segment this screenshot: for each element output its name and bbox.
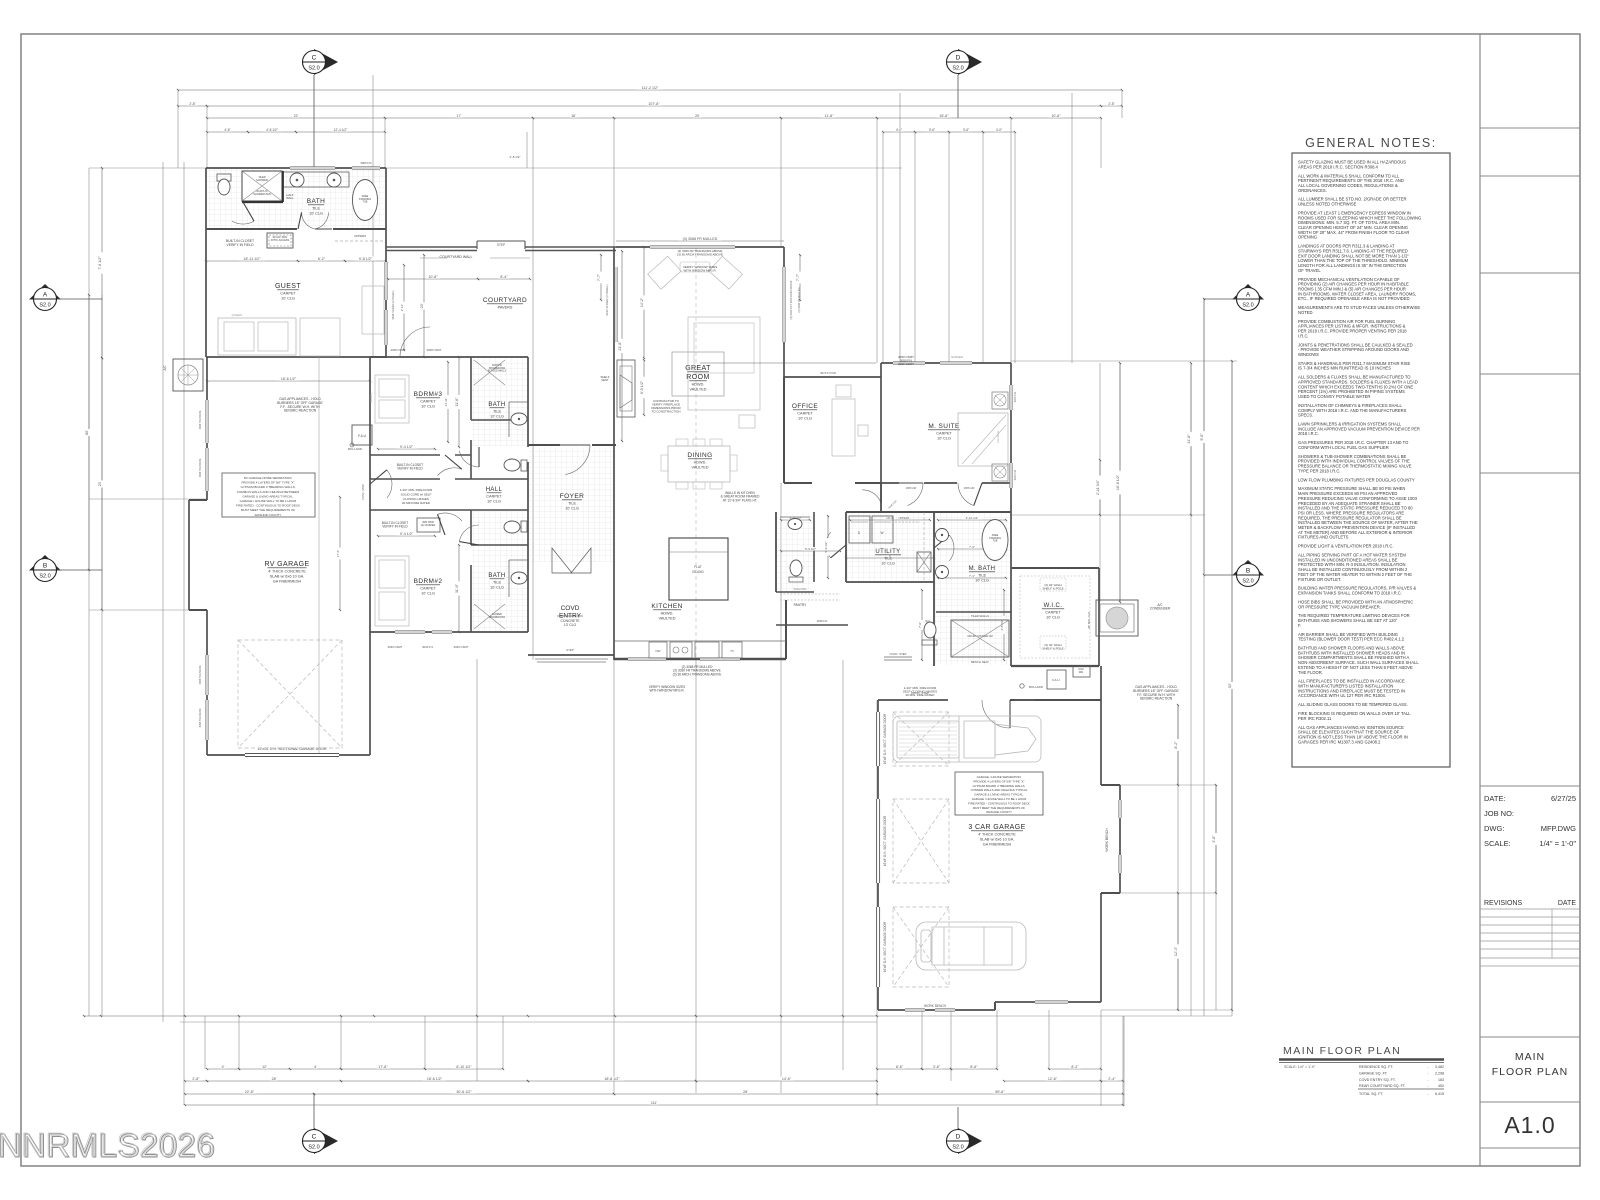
svg-text:A/C: A/C xyxy=(163,365,167,371)
svg-text:(2) NOZZES: (2) NOZZES xyxy=(421,523,436,527)
svg-text:14'-11": 14'-11" xyxy=(444,397,448,406)
svg-text:107'-8": 107'-8" xyxy=(648,102,660,106)
svg-text:S2.0: S2.0 xyxy=(308,1145,319,1151)
svg-text:SLAB w/ 6x6 10 GA.: SLAB w/ 6x6 10 GA. xyxy=(980,838,1015,842)
svg-text:WITH WINDOW MFG.R.: WITH WINDOW MFG.R. xyxy=(684,268,717,272)
svg-text:DINING: DINING xyxy=(687,452,712,459)
svg-text:(3) 36 ARCH TRANSOMS ABOVE: (3) 36 ARCH TRANSOMS ABOVE xyxy=(677,252,723,256)
svg-text:WITH WINDOW MFG.R.: WITH WINDOW MFG.R. xyxy=(649,689,684,693)
svg-text:CARPET: CARPET xyxy=(1045,611,1061,615)
svg-text:IN TILED WALLS: IN TILED WALLS xyxy=(488,370,507,373)
svg-text:HDWD.: HDWD. xyxy=(692,383,705,387)
svg-text:2'-8": 2'-8" xyxy=(1108,102,1114,106)
svg-text:DWG:: DWG: xyxy=(1484,824,1504,833)
svg-text:18'-11 1/2": 18'-11 1/2" xyxy=(244,257,262,261)
svg-text:18'-8 1/2": 18'-8 1/2" xyxy=(604,1077,620,1081)
svg-text:11'-6": 11'-6" xyxy=(455,397,459,407)
svg-text:BDRM#2: BDRM#2 xyxy=(414,578,443,585)
svg-text:THE FLOOR.: THE FLOOR. xyxy=(1298,670,1323,675)
svg-text:8'-10 1/2": 8'-10 1/2" xyxy=(456,1065,472,1069)
svg-text:PER 2018 I.R.C. PROVIDE PROPER: PER 2018 I.R.C. PROVIDE PROPER VENTING P… xyxy=(1298,329,1407,334)
svg-text:14'-8": 14'-8" xyxy=(1187,434,1191,444)
svg-text:7'-1": 7'-1" xyxy=(969,574,975,578)
svg-text:SHELF & POLE: SHELF & POLE xyxy=(1042,586,1063,590)
svg-text:MAIN FLOOR PLAN: MAIN FLOOR PLAN xyxy=(1283,1045,1401,1057)
svg-text:2'-11 3/4": 2'-11 3/4" xyxy=(1096,479,1100,495)
svg-text:10' CLG: 10' CLG xyxy=(421,592,435,596)
svg-text:3,482: 3,482 xyxy=(1435,1065,1444,1069)
svg-text:2'-8": 2'-8" xyxy=(192,1077,200,1081)
svg-text:6,415: 6,415 xyxy=(1435,1092,1444,1096)
svg-text:3068 TRANSOM: 3068 TRANSOM xyxy=(199,666,202,685)
svg-text:2'-8": 2'-8" xyxy=(189,102,195,106)
svg-text:3050 FIX: 3050 FIX xyxy=(1013,469,1017,480)
svg-text:3050 FIX: 3050 FIX xyxy=(1013,391,1017,402)
svg-text:3'-8": 3'-8" xyxy=(1212,835,1216,843)
svg-text:6/27/25: 6/27/25 xyxy=(1551,794,1576,803)
svg-text:ALL SLIDING GLASS DOORS TO BE: ALL SLIDING GLASS DOORS TO BE TEMPERED G… xyxy=(1298,702,1408,707)
svg-text:GUEST: GUEST xyxy=(275,283,301,290)
svg-text:20 MIN.FIRE RATED: 20 MIN.FIRE RATED xyxy=(402,501,431,505)
svg-text:22': 22' xyxy=(294,114,299,118)
svg-text:KITCHEN: KITCHEN xyxy=(651,603,682,610)
svg-text:UTILITY: UTILITY xyxy=(875,549,900,555)
svg-text:S2.0: S2.0 xyxy=(39,303,50,309)
svg-text:NNRMLS2026: NNRMLS2026 xyxy=(0,1126,215,1163)
svg-text:18'-6": 18'-6" xyxy=(939,114,949,118)
svg-text:TILE: TILE xyxy=(493,581,501,585)
svg-text:8'-6": 8'-6" xyxy=(970,1065,978,1069)
svg-text:D: D xyxy=(956,1134,961,1141)
svg-text:CARPET: CARPET xyxy=(797,412,813,416)
svg-text:2'-11": 2'-11" xyxy=(400,304,404,311)
svg-text:F.A.U: F.A.U xyxy=(1052,678,1059,682)
svg-text:16'x8' O.H. SECT. GARAGE DOOR: 16'x8' O.H. SECT. GARAGE DOOR xyxy=(883,921,887,972)
svg-text:TILE: TILE xyxy=(884,557,892,561)
svg-text:PER IRC R302.11: PER IRC R302.11 xyxy=(1298,716,1332,721)
svg-text:10' CLG: 10' CLG xyxy=(881,562,895,566)
svg-text:BENCH SEAT: BENCH SEAT xyxy=(971,660,989,664)
svg-text:SEISMIC REACTION: SEISMIC REACTION xyxy=(284,409,317,413)
svg-text:2868 AIR: 2868 AIR xyxy=(906,486,917,490)
svg-text:RV GARAGE NOISE SEPARATION:: RV GARAGE NOISE SEPARATION: xyxy=(244,476,293,480)
svg-text:D: D xyxy=(956,55,961,62)
svg-text:20': 20' xyxy=(695,114,700,118)
svg-text:3068 TRANSOM: 3068 TRANSOM xyxy=(199,411,202,430)
svg-text:MUST MEET THE REQUIREMENTS OF: MUST MEET THE REQUIREMENTS OF xyxy=(973,806,1026,810)
svg-text:111': 111' xyxy=(651,1101,657,1105)
svg-text:HDWD.: HDWD. xyxy=(694,461,707,465)
svg-text:9'-4 1/2": 9'-4 1/2" xyxy=(400,532,414,536)
svg-text:GARAGE SQ. FT.: GARAGE SQ. FT. xyxy=(1359,1071,1388,1075)
svg-text:COVD: COVD xyxy=(561,605,580,612)
svg-text:GENERAL NOTES:: GENERAL NOTES: xyxy=(1305,136,1437,150)
svg-text:SHOWER PAN: SHOWER PAN xyxy=(489,616,505,619)
svg-text:14'-6": 14'-6" xyxy=(782,1077,792,1081)
svg-text:TUB: TUB xyxy=(993,540,998,543)
svg-text:C: C xyxy=(312,55,317,62)
svg-text:CONC. STEP: CONC. STEP xyxy=(361,484,365,500)
svg-text:4'-8 1/2": 4'-8 1/2" xyxy=(266,128,278,132)
svg-text:COMPLY WITH 2018 I.R.C. AND TH: COMPLY WITH 2018 I.R.C. AND THE MANUFACT… xyxy=(1298,408,1407,413)
svg-text:12'-4": 12'-4" xyxy=(1174,946,1178,956)
svg-text:LOW FLOW PLUMBING FIXTURES PER: LOW FLOW PLUMBING FIXTURES PER DOUGLAS C… xyxy=(1298,477,1415,482)
svg-text:FLAT: FLAT xyxy=(694,565,702,569)
svg-text:7'-6 1/2": 7'-6 1/2" xyxy=(98,256,102,270)
svg-text:3068 TRANSOM: 3068 TRANSOM xyxy=(199,459,202,478)
svg-text:EXPANSION TANKS SHALL CONFORM: EXPANSION TANKS SHALL CONFORM TO 2018 I.… xyxy=(1298,591,1402,596)
svg-text:W.C.: W.C. xyxy=(925,619,931,623)
svg-text:13' CLG: 13' CLG xyxy=(564,623,577,627)
svg-text:SLAB w/ 6x6 10 GA.: SLAB w/ 6x6 10 GA. xyxy=(270,575,305,579)
svg-text:S2.0: S2.0 xyxy=(952,1145,963,1151)
svg-text:GARAGE & LIVING AREAS TYPICAL.: GARAGE & LIVING AREAS TYPICAL. xyxy=(242,494,293,498)
svg-text:8'-2": 8'-2" xyxy=(1071,1065,1079,1069)
svg-text:STEP: STEP xyxy=(566,648,574,652)
svg-text:IS 7-3/4 INCHES MIN RUN/TREAD: IS 7-3/4 INCHES MIN RUN/TREAD IS 10 INCH… xyxy=(1298,366,1391,371)
svg-text:QUEEN: QUEEN xyxy=(232,313,243,317)
svg-text:COMMON WALLS AND CEILINGS BETW: COMMON WALLS AND CEILINGS BETWEEN xyxy=(237,490,299,494)
svg-text:452: 452 xyxy=(1438,1084,1444,1088)
svg-text:GA FIBERMESH: GA FIBERMESH xyxy=(983,843,1012,847)
svg-text:10' CLG: 10' CLG xyxy=(975,579,989,583)
svg-text:10' CLG: 10' CLG xyxy=(487,500,501,504)
svg-text:2'-4": 2'-4" xyxy=(1108,1077,1116,1081)
svg-text:TYPE PER 2018 I.R.C.: TYPE PER 2018 I.R.C. xyxy=(1298,468,1341,473)
svg-text:3068 TRANSOM: 3068 TRANSOM xyxy=(199,709,202,728)
svg-text:2018 I.R.C.: 2018 I.R.C. xyxy=(1298,431,1319,436)
svg-text:BOLLARD: BOLLARD xyxy=(348,447,363,451)
svg-text:BATHTUBS AND SHOWERS SHALL BE: BATHTUBS AND SHOWERS SHALL BE SET AT 120… xyxy=(1298,618,1398,623)
svg-text:UPPERS: UPPERS xyxy=(899,516,910,520)
svg-text:3070 F FIXD: 3070 F FIXD xyxy=(820,371,836,375)
svg-text:SHOWER PAN: SHOWER PAN xyxy=(253,192,271,196)
svg-text:17'-8": 17'-8" xyxy=(378,1065,388,1069)
svg-text:REVISIONS: REVISIONS xyxy=(1484,900,1522,907)
svg-text:COURTYARD WALL: COURTYARD WALL xyxy=(439,255,472,259)
svg-text:GREAT: GREAT xyxy=(685,365,711,372)
svg-text:28': 28' xyxy=(272,1077,277,1081)
svg-text:SEISMIC REACTION: SEISMIC REACTION xyxy=(1140,697,1173,701)
svg-text:48" MIN. CLR.: 48" MIN. CLR. xyxy=(1087,611,1091,629)
svg-text:PAVERS: PAVERS xyxy=(498,306,513,310)
svg-text:M. BATH: M. BATH xyxy=(969,566,996,572)
svg-text:10' CLG: 10' CLG xyxy=(1046,616,1060,620)
svg-text:2848 F.R: 2848 F.R xyxy=(817,619,828,623)
svg-text:CONNER WALLS AND CEILINGS TYPI: CONNER WALLS AND CEILINGS TYPICAL xyxy=(971,788,1028,792)
svg-text:SOLID CORE w/ SELF: SOLID CORE w/ SELF xyxy=(401,492,432,496)
svg-text:W.I.C.: W.I.C. xyxy=(1044,603,1063,609)
svg-text:PROVIDE 4 LAYERS OF 5/8" TYPE: PROVIDE 4 LAYERS OF 5/8" TYPE "X" xyxy=(241,481,294,485)
svg-text:DATE: DATE xyxy=(1558,900,1576,907)
svg-text:SHELVING: SHELVING xyxy=(794,587,807,591)
svg-text:CARPET: CARPET xyxy=(420,587,436,591)
svg-text:WASHOE COUNTY: WASHOE COUNTY xyxy=(255,513,282,517)
svg-text:SCALE: 1/4" = 1'-0": SCALE: 1/4" = 1'-0" xyxy=(1284,1065,1316,1069)
svg-text:4'-6": 4'-6" xyxy=(224,128,230,132)
svg-text:3'-6": 3'-6" xyxy=(963,128,969,132)
svg-text:GARAGE / HOUSE WALL TO BE 1 HO: GARAGE / HOUSE WALL TO BE 1 HOUR xyxy=(972,797,1027,801)
svg-text:9'-8": 9'-8" xyxy=(1200,433,1204,441)
svg-text:7'-4": 7'-4" xyxy=(969,545,975,549)
svg-text:3050 CSMT: 3050 CSMT xyxy=(898,362,914,366)
svg-text:4' THICK CONCRETE: 4' THICK CONCRETE xyxy=(268,570,306,574)
svg-text:FIRE RATED - CONTINUOUS TO ROO: FIRE RATED - CONTINUOUS TO ROOF DECK xyxy=(968,801,1030,805)
svg-text:52': 52' xyxy=(1228,683,1232,688)
svg-text:9'-4 1/2": 9'-4 1/2" xyxy=(400,445,414,449)
svg-text:GARAGE & LIVING AREAS TYPICAL.: GARAGE & LIVING AREAS TYPICAL. xyxy=(974,793,1024,797)
svg-text:SUNKEN: SUNKEN xyxy=(951,355,963,359)
svg-text:1-3/4" MIN. FIRE DOOR: 1-3/4" MIN. FIRE DOOR xyxy=(400,488,433,492)
svg-text:GARAGES PER IRC M1307.3 AND G2: GARAGES PER IRC M1307.3 AND G2408.2 xyxy=(1298,739,1381,744)
svg-text:FIXTURE OR OUTLET.: FIXTURE OR OUTLET. xyxy=(1298,577,1341,582)
svg-text:C: C xyxy=(312,1134,317,1141)
svg-text:WASHOE COUNTY: WASHOE COUNTY xyxy=(986,810,1012,814)
svg-text:OF TRAVEL: OF TRAVEL xyxy=(1298,268,1321,273)
svg-text:S2.0: S2.0 xyxy=(952,66,963,72)
svg-text:NOTED: NOTED xyxy=(1298,310,1313,315)
svg-text:BATH: BATH xyxy=(488,573,505,579)
svg-text:10' CLG: 10' CLG xyxy=(490,586,504,590)
svg-text:CARPET: CARPET xyxy=(936,432,952,436)
svg-text:4' THICK CONCRETE: 4' THICK CONCRETE xyxy=(978,833,1016,837)
svg-text:TESTING (BLOWER DOOR TEST) PER: TESTING (BLOWER DOOR TEST) PER ECC R402.… xyxy=(1298,637,1405,642)
svg-text:RV GARAGE: RV GARAGE xyxy=(264,561,309,568)
svg-text:BDRM#3: BDRM#3 xyxy=(414,391,443,398)
svg-text:10' CLG: 10' CLG xyxy=(421,405,435,409)
svg-text:SHOWER: SHOWER xyxy=(256,178,268,182)
svg-text:A: A xyxy=(1246,292,1251,299)
svg-text:A: A xyxy=(43,292,48,299)
svg-text:AT 12'-8 3/4" PLATE HT.: AT 12'-8 3/4" PLATE HT. xyxy=(723,498,758,502)
svg-text:WINDOWS: WINDOWS xyxy=(1298,352,1319,357)
svg-text:4'-0": 4'-0" xyxy=(896,128,902,132)
svg-text:ACCORDANCE WITH UL 127 PER IRC: ACCORDANCE WITH UL 127 PER IRC R1004. xyxy=(1298,693,1386,698)
svg-text:VAULTED: VAULTED xyxy=(659,617,676,621)
svg-text:UNLESS NOTED OTHERWISE: UNLESS NOTED OTHERWISE xyxy=(1298,202,1357,207)
svg-text:TILE: TILE xyxy=(312,207,320,211)
svg-text:10' CLG: 10' CLG xyxy=(798,417,812,421)
svg-text:DW: DW xyxy=(656,649,661,653)
svg-text:ISLAND: ISLAND xyxy=(692,570,704,574)
svg-text:S2.0: S2.0 xyxy=(1242,579,1253,585)
svg-text:ATTIC ACCESS: ATTIC ACCESS xyxy=(271,238,290,242)
svg-text:3030 F.X.: 3030 F.X. xyxy=(422,645,434,649)
svg-text:9'-8 1/2": 9'-8 1/2" xyxy=(359,257,373,261)
svg-text:3'-6": 3'-6" xyxy=(933,1065,941,1069)
svg-text:22'-8": 22'-8" xyxy=(245,1090,255,1094)
svg-text:4': 4' xyxy=(314,1065,317,1069)
svg-text:3068 CSMT: 3068 CSMT xyxy=(427,348,442,352)
svg-text:FIXTURES AND OUTLETS: FIXTURES AND OUTLETS xyxy=(1298,535,1349,540)
svg-text:AIR/JET SHOWER AM: AIR/JET SHOWER AM xyxy=(967,635,993,638)
svg-text:TILE: TILE xyxy=(978,574,986,578)
svg-text:89'-6": 89'-6" xyxy=(995,1090,1005,1094)
svg-text:USED TO CONVEY POTABLE WATER: USED TO CONVEY POTABLE WATER xyxy=(1298,394,1370,399)
svg-text:FOYER: FOYER xyxy=(560,493,584,500)
svg-text:STEP: STEP xyxy=(497,243,505,247)
svg-text:(3) 3030 FR TRANSOMS ABOVE: (3) 3030 FR TRANSOMS ABOVE xyxy=(789,280,793,319)
svg-text:16': 16' xyxy=(571,114,576,118)
svg-text:B: B xyxy=(1246,568,1250,575)
svg-text:10'-6": 10'-6" xyxy=(1051,114,1061,118)
svg-text:HALL: HALL xyxy=(486,487,503,493)
svg-text:7'-9": 7'-9" xyxy=(918,622,922,628)
svg-text:OR PRESSURE TYPE VACUUM BREAKE: OR PRESSURE TYPE VACUUM BREAKER. xyxy=(1298,604,1381,609)
svg-text:ETC., IF REQUIRED OPENABLE ARE: ETC., IF REQUIRED OPENABLE AREA IS NOT P… xyxy=(1298,296,1410,301)
svg-text:HDWD.: HDWD. xyxy=(661,612,674,616)
svg-text:CAL KING: CAL KING xyxy=(996,431,1000,443)
svg-text:MEASUREMENTS ARE TO STUD FACES: MEASUREMENTS ARE TO STUD FACES UNLESS OT… xyxy=(1298,305,1420,310)
svg-text:16'-8 1/2": 16'-8 1/2" xyxy=(1116,474,1120,490)
svg-text:SPECS.: SPECS. xyxy=(1298,413,1313,418)
svg-text:(3) 36 ARCH TRANSOMS ABOVE: (3) 36 ARCH TRANSOMS ABOVE xyxy=(673,672,722,676)
svg-text:CARPET: CARPET xyxy=(486,495,502,499)
svg-text:CONFORM WITH LOCAL FUEL GAS SU: CONFORM WITH LOCAL FUEL GAS SUPPLIER xyxy=(1298,445,1389,450)
svg-text:OPENING: OPENING xyxy=(1298,235,1317,240)
svg-text:FIRE RATED - CONTINUOUS TO ROO: FIRE RATED - CONTINUOUS TO ROOF DECK xyxy=(236,504,300,508)
svg-text:23': 23' xyxy=(98,481,102,486)
svg-text:BOLLARD: BOLLARD xyxy=(1029,685,1044,689)
svg-text:CONC. STEP: CONC. STEP xyxy=(889,652,906,656)
svg-text:TUB: TUB xyxy=(363,201,368,204)
svg-text:OFFICE: OFFICE xyxy=(792,403,818,410)
svg-text:17': 17' xyxy=(457,114,462,118)
svg-text:CARPET: CARPET xyxy=(280,292,296,296)
svg-text:WALL: WALL xyxy=(286,196,294,200)
svg-text:9636 SLIDER (2 PANEL): 9636 SLIDER (2 PANEL) xyxy=(391,290,395,319)
svg-text:GA FIBERMESH: GA FIBERMESH xyxy=(273,580,302,584)
svg-text:12'-6": 12'-6" xyxy=(1048,1077,1058,1081)
svg-text:14'-2": 14'-2" xyxy=(640,297,644,307)
svg-text:TILED WALLS: TILED WALLS xyxy=(971,614,989,618)
svg-text:11'-8": 11'-8" xyxy=(825,114,835,118)
svg-text:11'-6": 11'-6" xyxy=(455,583,459,593)
svg-text:21'-8": 21'-8" xyxy=(618,341,622,351)
svg-text:F.: F. xyxy=(1298,623,1301,628)
svg-text:MUST MEET THE REQUIREMENTS OF: MUST MEET THE REQUIREMENTS OF xyxy=(241,508,296,512)
svg-text:6'-2": 6'-2" xyxy=(318,257,326,261)
svg-text:SHELF & POLE: SHELF & POLE xyxy=(1042,646,1063,650)
svg-text:17'-6": 17'-6" xyxy=(336,550,340,558)
svg-text:ROOM: ROOM xyxy=(686,374,709,381)
svg-text:VAULTED: VAULTED xyxy=(690,388,707,392)
svg-text:18'-6 1/2": 18'-6 1/2" xyxy=(427,1077,443,1081)
svg-text:1/4" = 1'-0": 1/4" = 1'-0" xyxy=(1539,839,1576,848)
svg-text:4'-0": 4'-0" xyxy=(996,128,1002,132)
svg-text:GARAGE / HOUSE SEPARATION:: GARAGE / HOUSE SEPARATION: xyxy=(977,775,1022,779)
svg-text:COURTYARD: COURTYARD xyxy=(483,297,527,304)
svg-text:PROVIDE 4 LAYERS OF 5/8" TYPE: PROVIDE 4 LAYERS OF 5/8" TYPE "X" xyxy=(973,779,1024,783)
svg-text:30'-6 1/2": 30'-6 1/2" xyxy=(456,1090,472,1094)
svg-text:WORK BENCH: WORK BENCH xyxy=(1105,828,1109,852)
svg-text:ORDINANCES.: ORDINANCES. xyxy=(1298,188,1327,193)
svg-text:7'-7": 7'-7" xyxy=(597,273,601,281)
svg-text:COVD ENTRY SQ. FT.: COVD ENTRY SQ. FT. xyxy=(1359,1078,1396,1082)
svg-text:VERIFY IN FIELD: VERIFY IN FIELD xyxy=(226,243,254,247)
svg-text:TILE: TILE xyxy=(493,410,501,414)
svg-text:UPPERS: UPPERS xyxy=(354,234,366,238)
svg-text:2,298: 2,298 xyxy=(1435,1071,1444,1075)
svg-text:QUEEN: QUEEN xyxy=(369,393,373,402)
svg-text:CARPET: CARPET xyxy=(420,400,436,404)
svg-text:PROVIDE LIGHT & VENTILATION PE: PROVIDE LIGHT & VENTILATION PER 2018 I.R… xyxy=(1298,544,1394,549)
svg-text:5'-9 1/2": 5'-9 1/2" xyxy=(805,547,816,551)
svg-text:VERIFY IN FIELD: VERIFY IN FIELD xyxy=(397,467,423,471)
svg-text:28': 28' xyxy=(743,1090,748,1094)
svg-text:F.A.U: F.A.U xyxy=(358,434,366,438)
svg-text:MFP.DWG: MFP.DWG xyxy=(1541,824,1576,833)
svg-text:CLOSING HINGES: CLOSING HINGES xyxy=(403,497,429,501)
svg-text:3030 CSMT: 3030 CSMT xyxy=(388,645,403,649)
svg-text:4': 4' xyxy=(222,1065,225,1069)
svg-text:GYPSUM BOARD 4 TBEARING WALLS,: GYPSUM BOARD 4 TBEARING WALLS, xyxy=(241,485,296,489)
svg-text:16'x8' O.H. SECT. GARAGE DOOR: 16'x8' O.H. SECT. GARAGE DOOR xyxy=(883,815,887,866)
svg-text:9636 SLIDER (2 PANEL): 9636 SLIDER (2 PANEL) xyxy=(605,284,609,315)
svg-text:3'-6": 3'-6" xyxy=(929,128,935,132)
svg-text:8'-6": 8'-6" xyxy=(896,1065,904,1069)
svg-text:W: W xyxy=(880,531,883,535)
svg-text:JOB NO:: JOB NO: xyxy=(1484,809,1514,818)
svg-text:12'-4 1/2": 12'-4 1/2" xyxy=(334,128,347,132)
svg-text:REAR COURTYARD SQ. FT.: REAR COURTYARD SQ. FT. xyxy=(1359,1084,1406,1088)
svg-text:BATH: BATH xyxy=(307,198,325,205)
svg-text:2'-8 1/2": 2'-8 1/2" xyxy=(510,155,521,159)
svg-text:PANTRY: PANTRY xyxy=(794,603,808,607)
svg-text:10' CLG: 10' CLG xyxy=(490,415,504,419)
svg-text:CONDENSER: CONDENSER xyxy=(1150,607,1171,611)
svg-text:GYPSUM BOARD 4 TBEARING WALLS,: GYPSUM BOARD 4 TBEARING WALLS, xyxy=(973,784,1026,788)
svg-text:VERIFY IN FIELD: VERIFY IN FIELD xyxy=(382,525,408,529)
svg-text:S2.0: S2.0 xyxy=(39,574,50,580)
svg-text:3'-10 1/2": 3'-10 1/2" xyxy=(966,516,979,520)
svg-text:GARAGE / HOUSE WALL TO BE 1 HO: GARAGE / HOUSE WALL TO BE 1 HOUR xyxy=(240,499,298,503)
svg-text:FLOOR PLAN: FLOOR PLAN xyxy=(1492,1066,1569,1078)
svg-text:12': 12' xyxy=(262,1065,267,1069)
svg-text:I.R.C.: I.R.C. xyxy=(1298,333,1309,338)
svg-text:VENT: VENT xyxy=(601,378,609,382)
svg-text:183: 183 xyxy=(1438,1078,1444,1082)
svg-text:RESIDENCE SQ. FT.: RESIDENCE SQ. FT. xyxy=(1359,1065,1393,1069)
svg-text:SCALE:: SCALE: xyxy=(1484,839,1511,848)
svg-text:6'-9 1/2": 6'-9 1/2" xyxy=(640,380,644,394)
svg-text:8'-2": 8'-2" xyxy=(1174,741,1178,749)
svg-text:16'x8' O.H. SECT. GARAGE DOOR: 16'x8' O.H. SECT. GARAGE DOOR xyxy=(883,713,887,764)
svg-text:AREAS PER 2018 I.R.C. SECTION: AREAS PER 2018 I.R.C. SECTION R308.4 xyxy=(1298,164,1379,169)
svg-text:VAULTED: VAULTED xyxy=(692,466,709,470)
svg-text:10'-8": 10'-8" xyxy=(428,275,438,279)
svg-text:TV: TV xyxy=(730,649,734,653)
svg-text:2868 AIR: 2868 AIR xyxy=(964,486,975,490)
svg-text:10' CLG: 10' CLG xyxy=(281,297,295,301)
svg-text:WH: WH xyxy=(1079,670,1083,674)
svg-text:3065 FIX: 3065 FIX xyxy=(360,161,371,165)
svg-text:A1.0: A1.0 xyxy=(1504,1112,1555,1138)
svg-text:10' CLG: 10' CLG xyxy=(565,507,579,511)
svg-text:10' CLG: 10' CLG xyxy=(937,437,951,441)
svg-text:DATE:: DATE: xyxy=(1484,794,1506,803)
svg-text:10' CLG: 10' CLG xyxy=(309,212,323,216)
svg-text:12'x14' O.H. SECTIONAL GARAGE: 12'x14' O.H. SECTIONAL GARAGE DOOR xyxy=(258,747,327,751)
svg-text:MAIN: MAIN xyxy=(1515,1051,1545,1063)
svg-text:(3) 3068 FR MULLED: (3) 3068 FR MULLED xyxy=(683,237,718,241)
svg-text:3030 CSMT: 3030 CSMT xyxy=(454,645,469,649)
svg-text:80': 80' xyxy=(85,430,89,435)
svg-text:TOTAL SQ. FT.: TOTAL SQ. FT. xyxy=(1359,1092,1383,1096)
svg-text:3 CAR GARAGE: 3 CAR GARAGE xyxy=(968,824,1025,831)
svg-text:S2.0: S2.0 xyxy=(308,66,319,72)
svg-text:111'-2 1/2": 111'-2 1/2" xyxy=(642,86,659,90)
